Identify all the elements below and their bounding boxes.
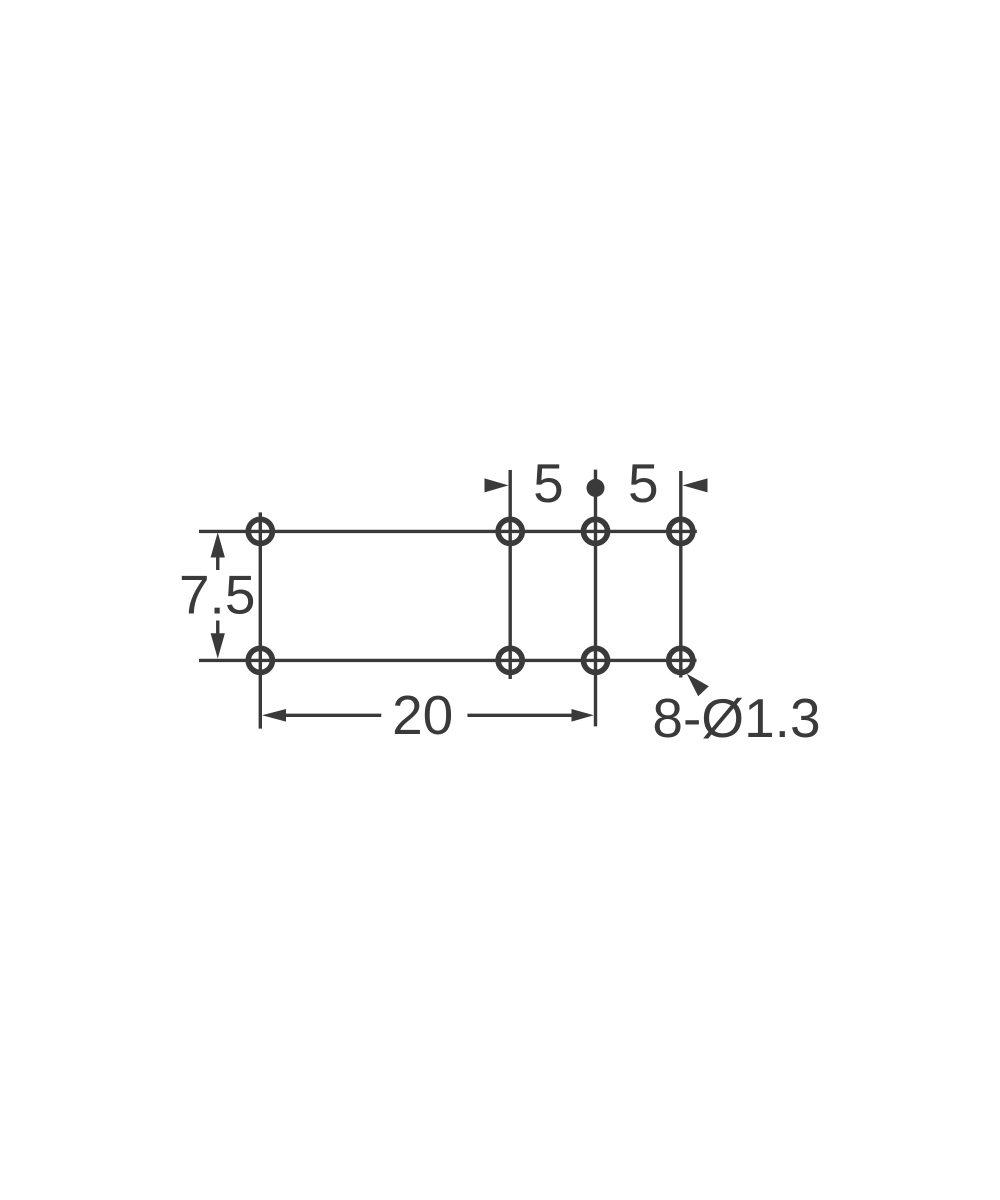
dimension 7.5: lower tail	[216, 621, 219, 635]
hole H3 (top row, third)	[583, 519, 607, 543]
dimension 20: left arrow	[262, 709, 286, 722]
dimension 7.5: lower arrow	[211, 633, 225, 658]
wire: column 1 center/extension line	[259, 512, 262, 728]
svg-text:7.5: 7.5	[179, 563, 255, 625]
svg-text:5: 5	[628, 452, 659, 514]
svg-text:5: 5	[533, 452, 564, 514]
wire: bottom hole-row center line	[199, 659, 697, 662]
hole H2 (top row, second)	[498, 519, 522, 543]
wire: column 3 center/extension line	[594, 470, 597, 727]
hole H5 (bottom-left)	[248, 648, 272, 672]
dimension 5/5: common origin dot	[587, 479, 605, 497]
wire: column 2 center/extension line	[509, 470, 512, 679]
svg-text:8-Ø1.3: 8-Ø1.3	[652, 687, 820, 749]
leader arrow for hole callout	[687, 674, 709, 696]
dimension 7.5: upper arrow	[211, 532, 225, 557]
dimension 5 (right): outside arrow pointing left	[683, 478, 708, 492]
wire: top hole-row center line	[199, 530, 697, 533]
hole H4 (top-right)	[669, 519, 693, 543]
wire: column 4 center/extension line	[679, 471, 682, 678]
hole H7 (bottom row, third)	[583, 648, 607, 672]
svg-text:20: 20	[392, 684, 453, 746]
dimension 7.5: upper tail	[216, 556, 219, 570]
dimension 20: right line segment	[467, 714, 571, 717]
hole H1 (top-left)	[248, 519, 272, 543]
dimension 5 (left): outside arrow pointing right	[485, 478, 509, 492]
dimension 20: right arrow	[572, 709, 594, 722]
hole H8 (bottom-right)	[669, 648, 693, 672]
dimension 20: left line segment	[285, 714, 381, 717]
hole H6 (bottom row, second)	[498, 648, 522, 672]
